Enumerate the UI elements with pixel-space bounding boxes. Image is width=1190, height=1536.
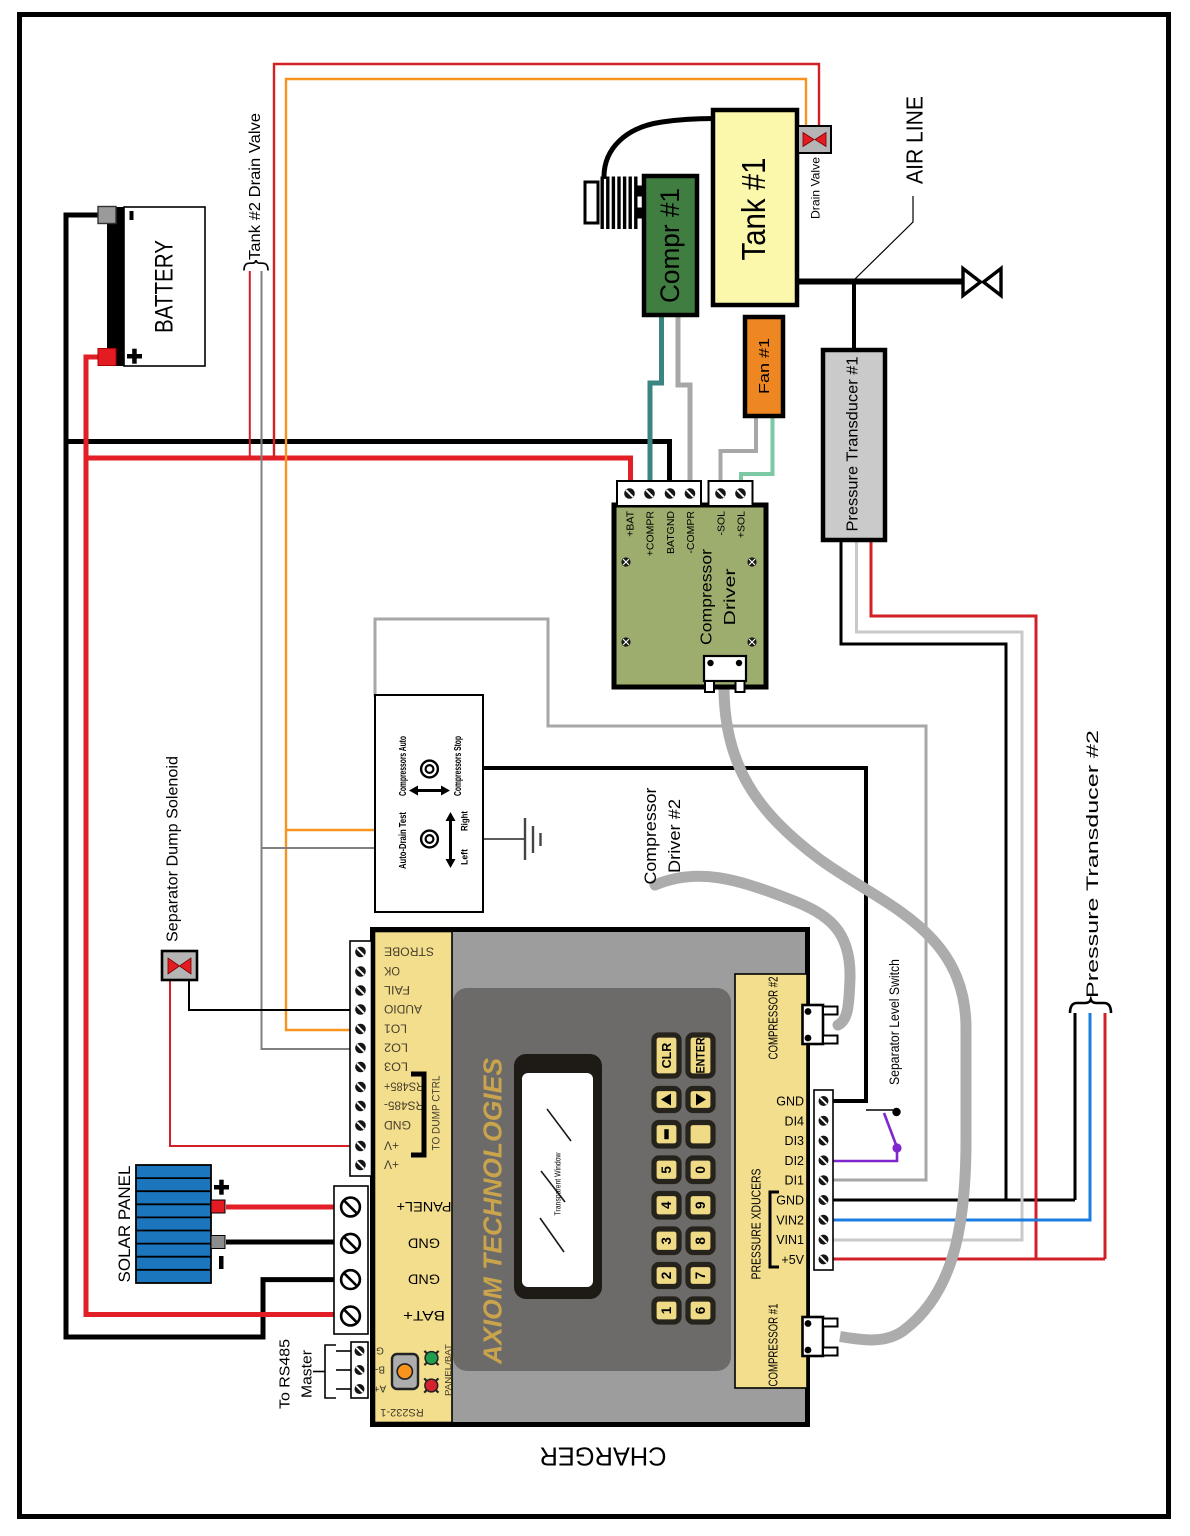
terminal strip TB4 (power, 4 pins) [334, 1186, 368, 1334]
wire black solar panel - to GND [226, 1240, 338, 1245]
display glass reflections [540, 1109, 571, 1252]
wire red separator dump solenoid to +V [170, 981, 351, 1146]
keypad button 8 [688, 1229, 713, 1253]
LED red BAT [424, 1378, 438, 1392]
svg-text:DI3: DI3 [785, 1134, 805, 1148]
svg-text:Pressure Transducer #2: Pressure Transducer #2 [1084, 730, 1102, 998]
keypad button 4 [654, 1194, 679, 1218]
svg-text:SOLAR PANEL: SOLAR PANEL [115, 1166, 134, 1283]
svg-text:Left: Left [459, 848, 470, 865]
svg-text:5: 5 [659, 1166, 674, 1174]
svg-text:Compressors Auto: Compressors Auto [397, 736, 409, 796]
solar panel negative terminal [211, 1236, 225, 1249]
wire gray fan1 to -SOL [721, 416, 757, 488]
mounting screw [747, 557, 756, 566]
wire orange LO1 to drain valve / auto-drain branch [286, 79, 806, 1030]
keypad button 0 [688, 1158, 713, 1182]
charger left PCB strip [375, 932, 453, 1423]
svg-text:FAIL: FAIL [384, 983, 410, 997]
svg-text:LO1: LO1 [384, 1022, 407, 1036]
wire white PT1 to VIN1 [833, 540, 1022, 1240]
svg-text:GND: GND [408, 1235, 440, 1251]
connector J1 on compressor driver [704, 656, 746, 692]
keypad button - [654, 1123, 679, 1147]
svg-text:Drain Valve: Drain Valve [808, 157, 822, 219]
wire black PT1 to GND2 rail [841, 540, 1006, 1200]
terminal strip TB3 (charger left, 12 pins) [350, 941, 372, 1176]
svg-text:6: 6 [693, 1306, 708, 1314]
svg-text:AXIOM TECHNOLOGIES: AXIOM TECHNOLOGIES [477, 1057, 507, 1365]
keypad button CLR [654, 1035, 679, 1076]
compressor driver U1 board [614, 505, 766, 687]
svg-text:4: 4 [659, 1201, 674, 1209]
bracket to RS485 master [313, 1345, 351, 1398]
bracket pressure xducers [770, 1192, 779, 1267]
charger front panel [453, 988, 731, 1371]
ground symbol [525, 818, 541, 860]
keypad button 1 [654, 1299, 679, 1322]
keypad button 3 [654, 1229, 679, 1253]
mounting screw [747, 637, 756, 646]
tank Tank #1 [713, 110, 797, 305]
svg-text:ENTER: ENTER [694, 1037, 708, 1073]
svg-text:AIR LINE: AIR LINE [902, 96, 928, 184]
wire red to tank2 drain valve bracket [249, 271, 251, 458]
terminal strip TB6 (I/O, 9 pins) [814, 1090, 833, 1270]
svg-text:RS485-: RS485- [384, 1099, 424, 1113]
svg-text:DI1: DI1 [785, 1174, 805, 1188]
wire purple separator level switch to DI2 [833, 1150, 897, 1161]
compressor motor cable [604, 119, 714, 180]
fan Fan #1 [745, 317, 783, 416]
node separator level switch pivot [892, 1143, 901, 1152]
svg-text:BATGND: BATGND [665, 511, 677, 554]
keypad button 5 [654, 1158, 679, 1182]
svg-text:0: 0 [693, 1166, 708, 1174]
svg-text:Master: Master [298, 1350, 315, 1398]
display window [522, 1073, 593, 1287]
svg-text:GND: GND [776, 1194, 804, 1208]
wire red PT2 to +5V rail [1104, 1013, 1107, 1259]
connector P2 COMPRESSOR #2 [803, 1005, 838, 1044]
svg-text:Separator Level Switch: Separator Level Switch [886, 959, 902, 1085]
wire black GND2 terminal rail [833, 1199, 1075, 1202]
mounting screw [621, 637, 630, 646]
keypad button blank [688, 1123, 713, 1147]
connector P1 COMPRESSOR #1 [803, 1317, 838, 1356]
svg-text:STROBE: STROBE [384, 945, 434, 959]
svg-text:RS485+: RS485+ [384, 1080, 424, 1094]
svg-text:PRESSURE XDUCERS: PRESSURE XDUCERS [750, 1169, 764, 1280]
svg-text:+V: +V [384, 1158, 399, 1172]
svg-text:+5V: +5V [781, 1253, 804, 1267]
solar panel plus sign [214, 1180, 229, 1195]
wire teal compressor1 to +COMPR [650, 314, 662, 488]
svg-text:G: G [376, 1344, 384, 1355]
svg-text:+V: +V [384, 1139, 399, 1153]
wire battery positive to BAT+ (red rail left side) [86, 357, 336, 1315]
svg-text:LO3: LO3 [384, 1060, 408, 1074]
compressor motor [585, 177, 645, 230]
svg-text:7: 7 [693, 1272, 708, 1280]
svg-text:Separator Dump Solenoid: Separator Dump Solenoid [165, 756, 182, 942]
wire red solar panel + to PANEL+ [226, 1205, 338, 1210]
wire orange branch to auto-drain test panel [286, 829, 375, 831]
battery plus sign [127, 349, 142, 364]
svg-text:B-: B- [375, 1363, 385, 1374]
svg-text:9: 9 [693, 1201, 708, 1209]
LED green PANEL [424, 1351, 438, 1365]
svg-text:GND: GND [384, 1118, 411, 1132]
callout line AIR LINE [855, 196, 913, 279]
svg-text:TO DUMP CTRL: TO DUMP CTRL [431, 1076, 443, 1151]
battery negative terminal [98, 207, 116, 224]
svg-text:3: 3 [659, 1237, 674, 1245]
keypad button left-arrow [654, 1089, 679, 1111]
svg-text:CLR: CLR [660, 1043, 674, 1069]
svg-text:BATTERY: BATTERY [151, 240, 179, 333]
svg-text:OK: OK [384, 964, 400, 978]
wire air line tank1 to valve [797, 279, 962, 285]
svg-text:Pressure Transducer #1: Pressure Transducer #1 [845, 357, 862, 532]
pressure transducer #1 [823, 350, 885, 540]
toggle switch compressors [421, 761, 438, 778]
svg-text:LO2: LO2 [384, 1041, 408, 1055]
wire air line to PT1 [852, 282, 856, 351]
svg-text:Transparent Window: Transparent Window [553, 1152, 562, 1215]
wire red +5V terminal rail [833, 1258, 1105, 1261]
cable compressor driver 2 to COMPRESSOR #2 connector [655, 876, 850, 1025]
wire gray compressor1 to -COMPR [678, 314, 690, 488]
wire black stub to separator level switch contact [866, 1109, 893, 1111]
control switch panel [375, 695, 483, 912]
svg-text:-COMPR: -COMPR [685, 511, 697, 554]
svg-text:+BAT: +BAT [624, 510, 636, 536]
svg-text:Driver #2: Driver #2 [666, 799, 684, 873]
svg-text:Compressors Stop: Compressors Stop [452, 736, 464, 796]
svg-text:Compressor: Compressor [642, 787, 660, 885]
svg-text:To RS485: To RS485 [276, 1339, 293, 1409]
svg-text:Tank #2 Drain Valve: Tank #2 Drain Valve [247, 113, 264, 260]
terminal block TB1 (+BAT..-COMPR) [617, 481, 701, 506]
separator level switch arm (purple) [884, 1113, 897, 1146]
terminal strip TB5 (RS485, 3 pins) [351, 1342, 368, 1398]
keypad button 9 [688, 1194, 713, 1218]
pushbutton (orange) [392, 1354, 418, 1389]
svg-text:COMPRESSOR #2: COMPRESSOR #2 [766, 977, 781, 1060]
wire battery negative branch to BATGND [66, 442, 670, 489]
svg-text:Compr #1: Compr #1 [655, 188, 685, 303]
svg-text:BAT+: BAT+ [403, 1308, 445, 1324]
separator dump solenoid bowtie [168, 958, 191, 974]
keypad button right-arrow [688, 1089, 713, 1111]
svg-text:GND: GND [408, 1272, 440, 1288]
ground symbol stem [483, 838, 524, 840]
svg-text:Fan #1: Fan #1 [756, 338, 773, 394]
solar panel minus sign [219, 1256, 224, 1269]
wire red PT1 to +5V rail [871, 540, 1036, 1259]
wire blue PT2 to VIN2 [833, 1013, 1090, 1220]
keypad button ENTER [688, 1035, 713, 1076]
solar panel positive terminal [211, 1200, 225, 1213]
svg-text:VIN2: VIN2 [776, 1213, 804, 1227]
svg-text:+COMPR: +COMPR [644, 511, 656, 557]
svg-text:PANEL+: PANEL+ [397, 1199, 452, 1215]
wire black PT2 to GND2 rail [1074, 1013, 1077, 1200]
battery plate bar [107, 207, 124, 366]
wire gray compressors-auto switch to DI1 [375, 619, 926, 1180]
svg-text:2: 2 [659, 1272, 674, 1280]
svg-text:Tank #1: Tank #1 [735, 158, 772, 261]
toggle switch auto-drain [421, 831, 438, 848]
svg-text:Auto-Drain Test: Auto-Drain Test [397, 812, 409, 869]
bracket TO DUMP CTRL [411, 1074, 424, 1155]
svg-text:VIN1: VIN1 [776, 1233, 804, 1247]
solar panel [136, 1165, 211, 1283]
svg-text:DI2: DI2 [785, 1154, 805, 1168]
battery minus sign [130, 211, 134, 220]
wire red loop to drain valve (top) [274, 64, 819, 458]
battery positive terminal [98, 349, 116, 366]
wire black separator dump solenoid to AUDIO [189, 981, 351, 1010]
keypad button 6 [688, 1299, 713, 1322]
wire gray tank2 drain valve / LO2 [262, 271, 352, 1049]
display bezel [514, 1054, 602, 1299]
mounting screw [621, 557, 630, 566]
charger enclosure [373, 930, 808, 1425]
keypad button 2 [654, 1265, 679, 1287]
svg-text:PANEL/BAT: PANEL/BAT [443, 1344, 453, 1396]
cable compressor driver 1 to COMPRESSOR #1 connector [724, 687, 966, 1340]
svg-text:8: 8 [693, 1237, 708, 1245]
svg-text:1: 1 [659, 1306, 674, 1314]
svg-text:DI4: DI4 [785, 1114, 805, 1128]
wire battery negative to GND (black rail left side) [66, 215, 338, 1337]
wire battery positive branch to +BAT [86, 458, 631, 488]
svg-text:RS232-1: RS232-1 [380, 1406, 423, 1418]
svg-text:CHARGER: CHARGER [540, 1442, 667, 1472]
brace tank2 drain valve pair [244, 260, 268, 270]
svg-text:Driver: Driver [722, 568, 739, 626]
svg-text:Compressor: Compressor [698, 548, 715, 645]
drain valve body [798, 126, 831, 153]
brace pressure transducer #2 pair [1070, 1000, 1111, 1014]
svg-text:AUDIO: AUDIO [384, 1002, 422, 1016]
svg-text:A+: A+ [374, 1382, 387, 1393]
compressor Compr #1 [644, 176, 697, 315]
node separator level switch fixed contact [892, 1108, 900, 1116]
wire gray branch to auto-drain test panel [262, 847, 376, 849]
terminal block TB2 (-SOL +SOL) [709, 481, 753, 506]
svg-text:-SOL: -SOL [715, 511, 727, 536]
arrow compressors toggle [409, 786, 450, 796]
svg-text:GND: GND [776, 1095, 804, 1109]
wire black compressors-stop switch to GND1 [483, 768, 866, 1101]
air line shutoff valve [963, 269, 1001, 296]
drain valve bowtie [803, 133, 826, 147]
arrow auto-drain toggle [446, 812, 456, 868]
charger right PCB strip [735, 974, 807, 1388]
svg-text:COMPRESSOR #1: COMPRESSOR #1 [766, 1304, 781, 1387]
svg-text:Right: Right [459, 810, 470, 831]
svg-text:+SOL: +SOL [735, 511, 747, 538]
battery body [124, 207, 205, 366]
keypad button 7 [688, 1265, 713, 1287]
separator dump solenoid valve [162, 951, 197, 980]
wire green fan1 to +SOL [741, 416, 773, 488]
